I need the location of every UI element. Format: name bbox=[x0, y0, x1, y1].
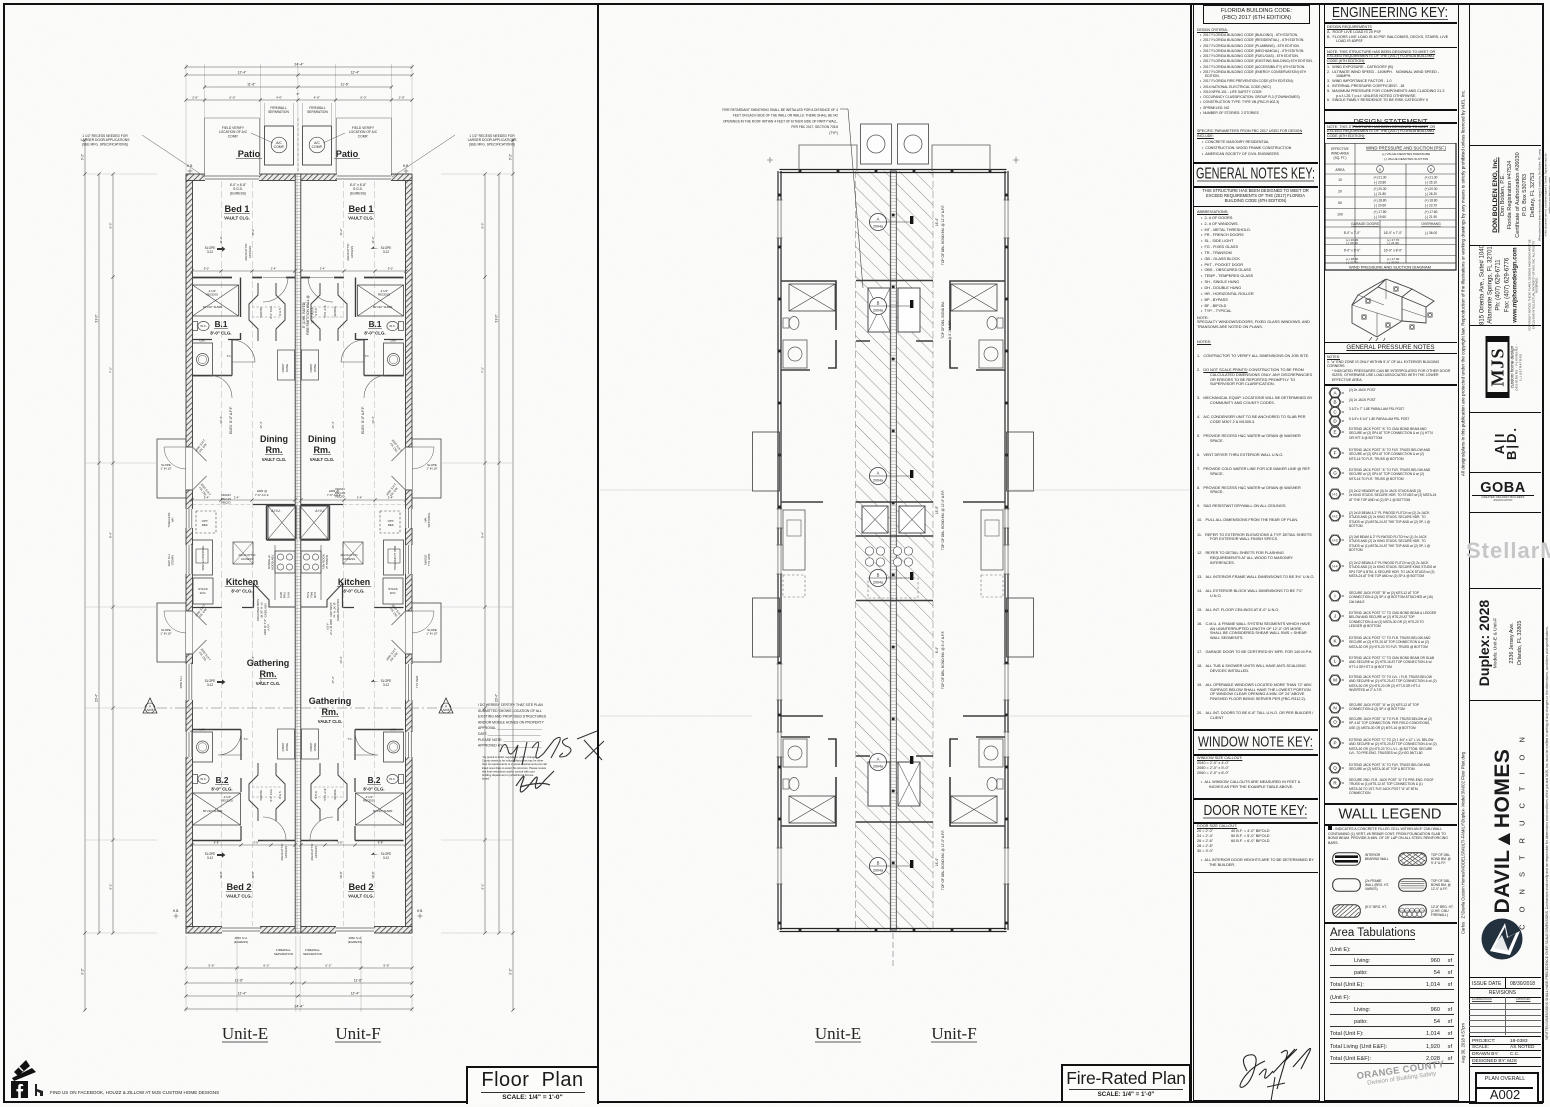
lavatory counter bbox=[193, 343, 213, 376]
bay window labels bbox=[160, 463, 171, 471]
hall closet chamfered walls bbox=[338, 763, 347, 821]
svg-text:WIND PRESSURE AND SUCTION (PSF: WIND PRESSURE AND SUCTION (PSF.) bbox=[1366, 146, 1447, 151]
sink counter top bbox=[979, 340, 1003, 368]
attic access labels bbox=[244, 243, 252, 261]
recess note left bbox=[81, 134, 131, 146]
fire-rated plan title box bbox=[1061, 1064, 1191, 1103]
svg-text:K: K bbox=[1333, 638, 1337, 643]
engineering key header bbox=[1324, 3, 1457, 24]
bath partition walls top bbox=[950, 281, 1005, 370]
hall closet chamfered walls bbox=[249, 763, 258, 821]
svg-text:(+) 17.80: (+) 17.80 bbox=[1425, 210, 1438, 214]
recessed bay bbox=[1007, 598, 1034, 657]
duplex 2028 block bbox=[1476, 591, 1492, 696]
drop zone box upper bbox=[302, 350, 319, 380]
toilet W.C. bbox=[399, 775, 404, 784]
recess 3.5 labels bbox=[206, 289, 218, 297]
svg-text:WIND PRESSURE AND SUCTION DIAG: WIND PRESSURE AND SUCTION DIAGRAM bbox=[1349, 265, 1431, 270]
washer dryer stack bbox=[193, 578, 213, 604]
firewall separation note top bbox=[268, 106, 289, 114]
bay opening in wall bbox=[186, 611, 193, 654]
exterior wall right bbox=[406, 174, 413, 933]
window opening fire plan bbox=[1004, 732, 1008, 757]
door swing bbox=[341, 340, 364, 362]
hall closet walls across hatch bbox=[856, 281, 933, 342]
dimension line bbox=[186, 982, 412, 984]
door note key header bbox=[1193, 798, 1318, 824]
recessed bay bbox=[753, 598, 780, 657]
refrigerator (opt) bbox=[196, 511, 216, 533]
svg-text:(-) 26.10: (-) 26.10 bbox=[1425, 180, 1437, 184]
svg-text:(+) 20.30: (+) 20.30 bbox=[1374, 187, 1387, 191]
svg-text:H-2: H-2 bbox=[1332, 514, 1337, 518]
door swing bbox=[355, 733, 378, 755]
bath partition walls top bbox=[781, 281, 836, 370]
section cut line bbox=[157, 707, 441, 709]
window size callout bbox=[1197, 756, 1315, 790]
dimension line bbox=[186, 74, 412, 76]
svg-text:(-) 21.80: (-) 21.80 bbox=[1374, 192, 1386, 196]
dimension line bbox=[186, 995, 412, 997]
approval signature bbox=[1233, 1043, 1318, 1103]
svg-text:G: G bbox=[1333, 470, 1337, 475]
column 1 outer box bbox=[1193, 3, 1320, 1101]
patio slab right bbox=[932, 145, 990, 171]
patio slab unit E bbox=[205, 118, 260, 174]
svg-text:(-) 23.70: (-) 23.70 bbox=[1425, 203, 1437, 207]
AIBD logo bbox=[1494, 420, 1518, 466]
title block outer box bbox=[1469, 3, 1543, 1104]
dimension line bbox=[512, 140, 514, 1010]
window opening bbox=[405, 545, 413, 574]
dimension line bbox=[192, 270, 295, 272]
svg-text:ENGINEERING KEY:: ENGINEERING KEY: bbox=[1332, 5, 1448, 21]
svg-text:D: D bbox=[1333, 419, 1337, 424]
handwriting signature bbox=[516, 771, 554, 792]
abbreviations bbox=[1197, 210, 1315, 330]
svg-text:(+) 18.80: (+) 18.80 bbox=[1425, 199, 1438, 203]
closet X bottom bbox=[951, 796, 997, 823]
svg-text:J: J bbox=[1334, 613, 1336, 618]
plan overall / A002 box bbox=[1475, 1072, 1539, 1104]
closet walls lower bbox=[856, 756, 933, 822]
svg-text:F: F bbox=[1334, 450, 1337, 455]
bath partition walls bottom bbox=[950, 737, 1005, 826]
wind pressure and suction table bbox=[1324, 143, 1457, 271]
lavatory counter bbox=[384, 732, 404, 762]
dimension line bbox=[498, 174, 500, 933]
svg-text:WIND AREA: WIND AREA bbox=[1331, 152, 1350, 156]
orange county stamp bbox=[1345, 1057, 1456, 1089]
section marker bbox=[439, 698, 453, 713]
dimension line bbox=[186, 1008, 412, 1010]
patio guide lines bbox=[265, 103, 332, 126]
kitchen counters bbox=[963, 501, 1005, 503]
svg-text:(-) 23.80: (-) 23.80 bbox=[1374, 180, 1386, 184]
exterior walls bbox=[777, 171, 779, 930]
dimension line bbox=[186, 99, 412, 101]
svg-text:R: R bbox=[1333, 780, 1337, 785]
florida building code title bbox=[1203, 5, 1310, 24]
kitchen counter line bbox=[320, 545, 322, 600]
area tabulations bbox=[1324, 922, 1457, 924]
A/C comp pad unit E bbox=[265, 126, 294, 165]
dimension line bbox=[192, 499, 295, 501]
door swing bbox=[310, 817, 333, 841]
MJS logo bbox=[1486, 336, 1523, 398]
kitchen counter line bbox=[274, 545, 276, 600]
door size callout bbox=[1197, 824, 1315, 868]
svg-text:WALL LEGEND: WALL LEGEND bbox=[1339, 807, 1442, 823]
interior sight lines bbox=[221, 181, 223, 926]
engineering key list bbox=[1327, 387, 1344, 399]
bay opening in wall bbox=[406, 611, 413, 654]
firewall separation bottom bbox=[274, 948, 293, 956]
kitchen counters bbox=[781, 501, 823, 503]
shower pan with cross bbox=[358, 285, 404, 316]
svg-text:N: N bbox=[1333, 705, 1336, 710]
exterior wall top bbox=[186, 174, 412, 181]
window opening fire plan bbox=[1004, 664, 1008, 700]
pantry chamfer bbox=[301, 583, 343, 607]
svg-text:(-) 26.20: (-) 26.20 bbox=[1425, 192, 1437, 196]
kitchen sink counter bbox=[384, 540, 404, 575]
recessed bay bbox=[412, 603, 441, 662]
party wall (fire wall) bbox=[295, 174, 301, 933]
window opening fire plan bbox=[777, 509, 781, 528]
range with burners bbox=[275, 551, 295, 573]
bay opening in wall bbox=[406, 447, 413, 490]
svg-text:(+) 21.30: (+) 21.30 bbox=[1425, 176, 1438, 180]
svg-text:Q: Q bbox=[1333, 765, 1337, 770]
svg-text:A: A bbox=[1333, 390, 1337, 395]
svg-text:9'-0" x 8'-0": 9'-0" x 8'-0" bbox=[1344, 249, 1361, 253]
stellar watermark bbox=[1466, 538, 1550, 564]
svg-text:8'-0" x 7'-0": 8'-0" x 7'-0" bbox=[1344, 231, 1361, 235]
svg-text:(+) 20.30: (+) 20.30 bbox=[1425, 187, 1438, 191]
copyright strip rotated text bbox=[1460, 9, 1465, 557]
svg-text:(+) VALUE DENOTES PRESSURE: (+) VALUE DENOTES PRESSURE bbox=[1382, 152, 1430, 156]
washer boxes top bbox=[861, 124, 892, 164]
drop zone box bbox=[278, 729, 295, 759]
pantry chamfer bbox=[253, 583, 295, 607]
structure paragraph bbox=[1196, 188, 1315, 203]
recessed bay bbox=[753, 432, 780, 491]
carlos path rotated bbox=[1460, 703, 1465, 983]
written dimensions margin note bbox=[1545, 563, 1549, 1103]
window opening fire plan bbox=[1004, 545, 1008, 574]
design requirements bbox=[1327, 25, 1454, 44]
dimension line bbox=[301, 499, 406, 501]
design criteria list bbox=[1197, 28, 1315, 115]
svg-text:(-) 23.90: (-) 23.90 bbox=[1346, 241, 1358, 245]
section marker bbox=[143, 698, 157, 713]
closet X bottom bbox=[789, 796, 835, 823]
slope arrows bed1 bbox=[205, 246, 216, 254]
guide lines bbox=[600, 489, 752, 491]
fire retardant note bbox=[722, 108, 838, 135]
toilet W.C. bbox=[193, 322, 198, 331]
door swing bbox=[263, 278, 288, 303]
sgd egress notes bbox=[230, 183, 247, 195]
wall fastener dots bbox=[778, 194, 781, 197]
svg-text:(-) 20.60: (-) 20.60 bbox=[1374, 203, 1386, 207]
svg-text:(+) 17.80: (+) 17.80 bbox=[1374, 210, 1387, 214]
attic access bbox=[233, 542, 253, 564]
dimension line bbox=[84, 140, 86, 1010]
svg-text:b: b bbox=[1430, 168, 1432, 172]
project rows bbox=[1469, 1036, 1541, 1037]
fire rated plan drawing bbox=[600, 108, 1190, 1043]
S.G.D. opening unit F bbox=[337, 173, 391, 182]
window opening fire plan bbox=[1004, 200, 1008, 238]
svg-text:EFFECTIVE: EFFECTIVE bbox=[1331, 147, 1349, 151]
window opening bbox=[405, 664, 413, 700]
drop zone box bbox=[302, 729, 319, 759]
svg-text:16'-0" x 8'-0": 16'-0" x 8'-0" bbox=[1384, 249, 1403, 253]
door swing bbox=[218, 733, 241, 755]
svg-text:20: 20 bbox=[1338, 190, 1342, 194]
svg-text:O: O bbox=[1333, 719, 1337, 724]
panel divider 1 bbox=[597, 3, 599, 1102]
dimension line bbox=[205, 86, 392, 88]
numbered notes bbox=[1197, 340, 1315, 721]
GOBA logo bbox=[1472, 480, 1534, 502]
recess note right bbox=[468, 134, 518, 146]
dimension line bbox=[301, 844, 406, 846]
svg-text:(-) 19.60: (-) 19.60 bbox=[1374, 215, 1386, 219]
ceiling labels central closets bbox=[259, 306, 263, 317]
lavatory counter bbox=[193, 732, 213, 762]
shower pan with cross bbox=[193, 793, 241, 825]
general notes key header bbox=[1193, 162, 1318, 188]
window opening fire plan bbox=[1004, 848, 1008, 884]
svg-text:WINDOW NOTE KEY:: WINDOW NOTE KEY: bbox=[1198, 735, 1313, 751]
svg-text:a: a bbox=[1379, 168, 1381, 172]
door swing bbox=[232, 340, 255, 362]
facebook logo bbox=[11, 1081, 28, 1098]
recessed bay bbox=[157, 603, 186, 662]
svg-text:50: 50 bbox=[1338, 201, 1342, 205]
field verify note E bbox=[219, 126, 248, 138]
window opening bbox=[185, 509, 193, 528]
kitchen annotations bbox=[202, 519, 209, 527]
floor plan drawing bbox=[81, 63, 605, 1043]
closet X top bbox=[789, 284, 835, 311]
zillow logo bbox=[10, 1058, 40, 1082]
window opening fire plan bbox=[777, 200, 781, 238]
window opening fire plan bbox=[777, 732, 781, 757]
toilet bottom bbox=[783, 779, 789, 789]
signed sealed tiny note bbox=[1538, 149, 1550, 241]
range burners fire plan bbox=[865, 547, 873, 555]
exterior wall bottom bbox=[186, 927, 412, 934]
door swing bbox=[263, 817, 286, 841]
shower labels bbox=[203, 305, 224, 309]
attic access bbox=[343, 542, 363, 564]
A.H.U. closet bbox=[268, 506, 296, 539]
column 2 outer box bbox=[1324, 3, 1459, 1101]
stamp text block bbox=[478, 703, 547, 748]
wall legend symbols bbox=[1332, 852, 1361, 866]
t.c. labels bbox=[227, 354, 232, 358]
window opening bbox=[185, 545, 193, 574]
patio slab unit F bbox=[337, 118, 392, 174]
toilet bottom bbox=[997, 779, 1003, 789]
don bolden eng block bbox=[1492, 148, 1538, 243]
closet X top bbox=[951, 284, 997, 311]
patio slab left bbox=[799, 145, 857, 171]
svg-text:GARAGE DOORS: GARAGE DOORS bbox=[1351, 222, 1380, 226]
svg-text:M: M bbox=[1333, 677, 1337, 682]
dining kitchen divider bbox=[253, 504, 343, 506]
svg-text:H-1: H-1 bbox=[1332, 492, 1337, 496]
door swing bbox=[210, 376, 232, 399]
ahu labels bbox=[271, 509, 281, 513]
shower pan with cross bbox=[356, 793, 404, 825]
recessed bay bbox=[157, 439, 186, 498]
fire plan hatch band bbox=[856, 171, 934, 930]
specific parameters bbox=[1197, 129, 1315, 157]
window opening fire plan bbox=[777, 545, 781, 574]
svg-text:16'-0" x 7'-0": 16'-0" x 7'-0" bbox=[1384, 231, 1403, 235]
window opening bbox=[405, 509, 413, 528]
svg-text:(-) 21.90: (-) 21.90 bbox=[1387, 241, 1399, 245]
svg-text:H-3: H-3 bbox=[1332, 538, 1337, 542]
svg-text:L: L bbox=[1334, 658, 1337, 663]
door swing bbox=[364, 376, 386, 399]
window opening bbox=[185, 732, 193, 757]
panel divider 2 bbox=[1190, 3, 1192, 1102]
refrigerator (opt) bbox=[380, 511, 400, 533]
svg-text:(SQ. FT.): (SQ. FT.) bbox=[1334, 156, 1347, 160]
bottom window egress labels bbox=[234, 936, 249, 944]
ahu walls across hatch bbox=[856, 502, 933, 536]
A.H.U. closet bbox=[300, 506, 328, 539]
bottom extension lines bbox=[185, 936, 187, 1012]
window opening fire plan bbox=[777, 664, 781, 700]
issue date row bbox=[1469, 977, 1541, 978]
sink counter top bbox=[783, 340, 807, 368]
recessed bay bbox=[412, 439, 441, 498]
svg-text:OVERHANG: OVERHANG bbox=[1421, 222, 1441, 226]
mjs address block bbox=[1478, 238, 1519, 332]
dimension line bbox=[186, 66, 412, 68]
revisions row bbox=[1458, 990, 1547, 996]
svg-text:E: E bbox=[1333, 429, 1336, 434]
elev rotated labels bbox=[229, 406, 233, 434]
svg-text:(-) 36.00: (-) 36.00 bbox=[1425, 231, 1438, 235]
svg-text:10: 10 bbox=[1338, 178, 1342, 182]
bay opening in wall bbox=[186, 447, 193, 490]
window opening fire plan bbox=[777, 848, 781, 884]
svg-text:P: P bbox=[1333, 740, 1336, 745]
bedroom window opening bottom bbox=[222, 926, 260, 934]
design statement header bbox=[1324, 109, 1457, 124]
window note key header bbox=[1193, 729, 1318, 756]
bath partition walls bottom bbox=[781, 737, 836, 826]
sink counter bottom bbox=[979, 739, 1003, 767]
S.G.D. opening unit E bbox=[205, 173, 259, 182]
dimension line bbox=[484, 174, 486, 933]
svg-text:DOOR NOTE KEY:: DOOR NOTE KEY: bbox=[1204, 803, 1308, 819]
footer find us text bbox=[50, 1090, 219, 1095]
handwriting 10/7 duplex bbox=[500, 731, 597, 765]
davila homes logo text bbox=[1491, 701, 1515, 961]
drop zone box upper bbox=[278, 350, 295, 380]
bedroom window opening bottom bbox=[336, 926, 374, 934]
svg-text:H-4: H-4 bbox=[1332, 564, 1337, 568]
drop zone labels bbox=[281, 364, 289, 373]
pantry dashes across hatch bbox=[868, 578, 918, 598]
svg-text:B: B bbox=[1333, 400, 1336, 405]
fire partition note bbox=[302, 295, 314, 335]
svg-text:(-) VALUE DENOTES SUCTION: (-) VALUE DENOTES SUCTION bbox=[1384, 157, 1428, 161]
window opening bbox=[185, 664, 193, 700]
dimension line bbox=[112, 174, 114, 933]
svg-text:GENERAL NOTES KEY:: GENERAL NOTES KEY: bbox=[1196, 166, 1315, 183]
wind suction isometric house bbox=[1344, 277, 1444, 341]
hall closet chamfered walls bbox=[338, 283, 347, 341]
door tags on party wall bbox=[870, 214, 887, 231]
washer dryer stack bbox=[383, 578, 403, 604]
recessed bay bbox=[1007, 432, 1034, 491]
svg-text:(+) 18.80: (+) 18.80 bbox=[1374, 199, 1387, 203]
svg-text:I: I bbox=[1334, 593, 1335, 598]
floor plan title box bbox=[466, 1066, 599, 1104]
toilet top bbox=[997, 318, 1003, 328]
hdr labels bbox=[255, 489, 269, 497]
field verify note F bbox=[349, 126, 378, 138]
davila logo circle bbox=[1480, 917, 1524, 961]
dimension line bbox=[301, 270, 406, 272]
hall closet chamfered walls bbox=[249, 283, 258, 341]
toilet W.C. bbox=[193, 775, 198, 784]
window labels gathering bbox=[179, 675, 183, 688]
sink counter bottom bbox=[783, 739, 807, 767]
dimension line bbox=[186, 967, 412, 969]
interior walls unit E bbox=[193, 277, 296, 279]
kitchen sink counter bbox=[193, 540, 213, 575]
general pressure notes header bbox=[1324, 342, 1457, 354]
A/C comp pad unit F bbox=[303, 126, 332, 165]
houzz mark bbox=[35, 1084, 45, 1096]
mjs copyright tiny bbox=[1529, 239, 1540, 331]
party wall 2hr bbox=[890, 171, 896, 930]
svg-text:(+) 21.30: (+) 21.30 bbox=[1374, 176, 1387, 180]
shower pan with cross bbox=[193, 285, 239, 316]
svg-text:100: 100 bbox=[1337, 213, 1343, 217]
exterior wall left bbox=[186, 174, 193, 933]
svg-text:(-) 21.90: (-) 21.90 bbox=[1425, 215, 1437, 219]
dimension line bbox=[98, 174, 100, 933]
door swing bbox=[308, 278, 333, 303]
dimension line bbox=[192, 844, 295, 846]
top extension lines bbox=[185, 64, 187, 172]
svg-text:AREA: AREA bbox=[1335, 168, 1345, 172]
range with burners bbox=[301, 551, 321, 573]
cmu cell note bbox=[1328, 826, 1454, 845]
toilet W.C. bbox=[399, 322, 404, 331]
wall legend header bbox=[1324, 803, 1457, 826]
svg-text:C: C bbox=[1333, 409, 1337, 414]
window opening fire plan bbox=[1004, 509, 1008, 528]
lavatory counter bbox=[384, 343, 404, 376]
toilet top bbox=[783, 318, 789, 328]
window opening bbox=[405, 732, 413, 757]
